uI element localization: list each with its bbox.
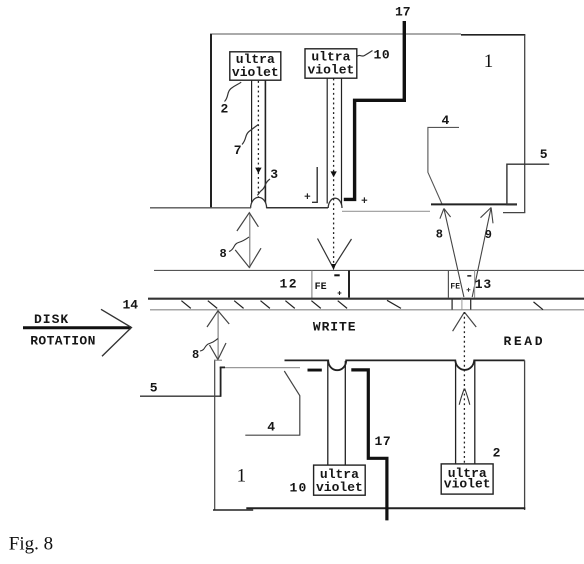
tube 1 right wall bbox=[264, 80, 266, 203]
svg-text:ROTATION: ROTATION bbox=[30, 333, 96, 348]
svg-text:violet: violet bbox=[444, 477, 491, 492]
FE 2 minus bbox=[467, 275, 471, 277]
disk hatch strokes bbox=[181, 300, 543, 309]
row top line bbox=[154, 269, 584, 271]
disk rotation arrowhead bbox=[101, 309, 131, 356]
read head baseline (top) bbox=[431, 203, 517, 205]
svg-text:violet: violet bbox=[316, 480, 363, 495]
label 8 (bottom gap) leader bbox=[200, 339, 218, 352]
svg-text:3: 3 bbox=[270, 167, 278, 182]
svg-text:1: 1 bbox=[237, 466, 247, 487]
label 10 (top) leader bbox=[357, 51, 373, 57]
bottom write tube left wall bbox=[327, 361, 329, 465]
svg-text:2: 2 bbox=[493, 446, 501, 461]
label 8 (top gap) leader bbox=[229, 237, 249, 252]
tube 2 right wall bbox=[341, 78, 343, 204]
write baseline mid bbox=[266, 207, 328, 209]
lens bump tube 1 bbox=[251, 197, 267, 208]
svg-text:5: 5 bbox=[540, 147, 548, 162]
bottom head face line bbox=[220, 367, 301, 369]
label 7 leader bbox=[242, 125, 258, 145]
svg-text:17: 17 bbox=[375, 434, 392, 449]
read arrow 9 bbox=[472, 208, 493, 298]
FE 1 plus bbox=[338, 291, 342, 295]
wire 17 (bottom) thick bbox=[351, 370, 387, 521]
read beam nib arrowhead (up) bbox=[459, 389, 470, 405]
svg-text:1: 1 bbox=[484, 51, 494, 72]
read arrow 8 bbox=[440, 209, 464, 298]
uv lamp box U2 (top write) bbox=[305, 49, 357, 78]
plus sign left bbox=[305, 193, 311, 199]
svg-text:8: 8 bbox=[436, 228, 443, 242]
svg-text:DISK: DISK bbox=[34, 312, 69, 327]
svg-text:4: 4 bbox=[267, 420, 275, 435]
enclosure 1 (bottom) bottom edge bbox=[213, 508, 525, 510]
FE cell 2 left divider bbox=[447, 270, 449, 297]
read beam open V (under disk) bbox=[453, 312, 477, 331]
svg-text:14: 14 bbox=[123, 298, 139, 313]
write beam open V wings bbox=[318, 239, 352, 268]
label 3 leader bbox=[257, 179, 270, 195]
enclosure 1 (bottom) top corner stub bbox=[214, 359, 222, 361]
svg-text:5: 5 bbox=[150, 380, 158, 395]
svg-text:12: 12 bbox=[280, 276, 299, 291]
label 4 (top) leader bbox=[428, 127, 459, 204]
read beam dotted (bottom) bbox=[463, 312, 465, 464]
FE 1 minus bbox=[334, 274, 339, 276]
FE cell 1 left divider bbox=[311, 270, 313, 299]
enclosure 1 (top) bottom-right corner bbox=[503, 212, 525, 214]
svg-text:2: 2 bbox=[221, 102, 229, 117]
disk band bottom line bbox=[150, 309, 584, 311]
svg-text:9: 9 bbox=[485, 228, 492, 242]
label 2 (top) leader bbox=[225, 82, 242, 101]
disk rotation arrow shaft bbox=[23, 326, 131, 329]
enclosure 1 (bottom) right edge bbox=[524, 360, 526, 510]
double arrow 8 (top) arrowheads bbox=[235, 213, 261, 268]
write beam tip arrowhead at FE bbox=[331, 264, 336, 270]
FE 2 plus bbox=[467, 288, 471, 292]
label 5 (bottom) step vertical bbox=[221, 367, 225, 396]
plus sign right bbox=[362, 197, 368, 203]
svg-text:7: 7 bbox=[234, 143, 242, 158]
bottom write tube right wall bbox=[344, 361, 346, 465]
disk recorded marks at read position bbox=[452, 299, 471, 310]
svg-text:17: 17 bbox=[395, 4, 411, 19]
FE cell 1 right divider bbox=[348, 270, 350, 297]
svg-text:violet: violet bbox=[307, 63, 354, 78]
label 5 (top) leader bbox=[507, 164, 549, 205]
tube 1 left wall bbox=[251, 80, 253, 202]
tube 2 left wall bbox=[326, 78, 328, 203]
double arrow 8 (bottom gap) shaft bbox=[217, 311, 219, 360]
svg-text:10: 10 bbox=[290, 480, 308, 495]
enclosure 1 (top) left edge bbox=[210, 34, 212, 208]
beam 3 dotted (tube 1) bbox=[257, 81, 259, 205]
lens bump tube 2 bbox=[328, 198, 342, 208]
uv lamp box U3 (bottom write) bbox=[314, 465, 366, 495]
write beam arrowhead mid-tube bbox=[331, 171, 337, 177]
svg-text:READ: READ bbox=[504, 334, 546, 349]
svg-text:8: 8 bbox=[192, 348, 199, 362]
double arrow 8 (bottom gap) arrowheads bbox=[207, 311, 229, 360]
thick electrode dash (bottom write, left) bbox=[308, 369, 322, 372]
enclosure 1 (top) right edge bbox=[524, 35, 526, 213]
label 4 (bottom) leader bbox=[245, 371, 300, 435]
beam 3 arrowhead bbox=[255, 168, 261, 174]
write baseline left bbox=[150, 207, 251, 209]
disk band top line bbox=[148, 298, 584, 300]
svg-text:FE: FE bbox=[315, 282, 327, 293]
electrode right thick + wire 17 (top) bbox=[344, 21, 405, 199]
bottom read tube right wall bbox=[474, 361, 476, 464]
uv lamp box U1 (top-left) bbox=[230, 52, 281, 80]
FE cell 2 right divider bbox=[474, 270, 476, 297]
svg-text:13: 13 bbox=[475, 277, 492, 292]
electrode left of tube 2 bbox=[312, 167, 317, 202]
double arrow 8 (top, head gap) shaft bbox=[249, 213, 251, 268]
enclosure 1 (top) top edge bbox=[210, 33, 525, 36]
baseline grey right bbox=[342, 210, 430, 212]
label 5 (bottom) leader horizontal bbox=[140, 395, 221, 397]
svg-text:violet: violet bbox=[232, 65, 279, 80]
bottom read tube left wall bbox=[455, 361, 457, 464]
svg-text:4: 4 bbox=[442, 113, 450, 128]
svg-text:WRITE: WRITE bbox=[313, 319, 357, 334]
enclosure 1 (bottom) top edge with tube notches bbox=[285, 360, 525, 370]
enclosure 1 (bottom) left edge bbox=[214, 360, 216, 510]
uv lamp box U4 (bottom read) bbox=[441, 464, 493, 494]
svg-text:Fig. 8: Fig. 8 bbox=[9, 534, 53, 555]
svg-text:8: 8 bbox=[220, 247, 227, 261]
svg-text:10: 10 bbox=[374, 47, 391, 62]
write beam dotted (tube 2) bbox=[333, 79, 335, 267]
svg-text:FE: FE bbox=[450, 282, 460, 291]
